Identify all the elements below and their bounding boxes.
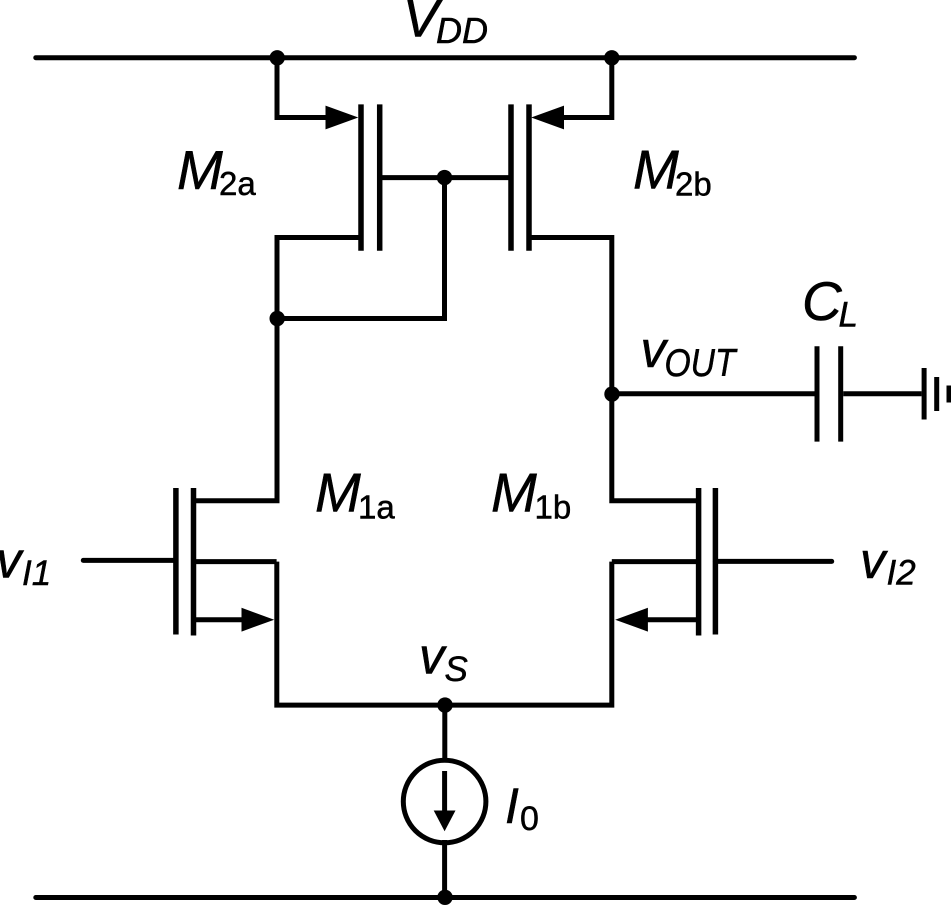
wire vOUT node to capacitor <box>612 391 816 396</box>
arrow M2a source (points into device) <box>326 106 359 130</box>
svg-text:2a: 2a <box>219 165 256 202</box>
node VDD tap M2b <box>604 50 619 65</box>
wire M2a source from VDD <box>277 58 330 118</box>
svg-text:v: v <box>860 532 888 589</box>
wire current source I0 to ground rail <box>442 840 447 898</box>
M2b gate bar <box>508 104 514 250</box>
svg-text:I1: I1 <box>22 554 51 593</box>
svg-text:v: v <box>419 628 447 685</box>
wire M1b source arrow shaft <box>643 617 699 622</box>
capacitor CL <box>817 346 841 441</box>
node VDD tap M2a <box>270 50 285 65</box>
wire M1a source/bulk down to tail node vS <box>277 562 612 706</box>
svg-text:OUT: OUT <box>665 342 738 385</box>
arrow M1a source (points out of device) <box>242 608 275 632</box>
node bottom rail / I0 <box>437 890 452 905</box>
wire capacitor to ground symbol <box>843 391 921 396</box>
svg-text:1a: 1a <box>358 488 395 525</box>
CL left plate <box>815 346 820 441</box>
M1a channel bar <box>191 488 197 636</box>
wire M1a source arrow shaft <box>194 617 247 622</box>
arrow M2b source (points into device) <box>531 106 564 130</box>
wire M2a gate to mirror node <box>382 175 445 180</box>
node vS <box>437 697 452 712</box>
svg-text:M: M <box>177 139 223 201</box>
wire M1a bulk lead <box>194 559 277 564</box>
wire mirror node down and left to M2a drain (diode connection) <box>277 178 445 319</box>
transistor M1b (NMOS, diff pair right) <box>699 488 716 636</box>
wire M2b source from VDD <box>560 58 612 118</box>
wire gate mirror node to M2b gate <box>445 175 509 180</box>
wire VDD rail <box>36 55 855 60</box>
wire M2a drain down to M1a drain <box>194 238 362 501</box>
svg-text:1b: 1b <box>535 488 572 525</box>
arrow M1b source (points out of device) <box>615 608 648 632</box>
svg-text:2b: 2b <box>675 166 712 203</box>
svg-text:M: M <box>315 462 361 524</box>
svg-text:M: M <box>633 139 679 201</box>
M2b channel bar <box>526 104 532 250</box>
transistor M2a (PMOS, diode-connected mirror) <box>361 104 380 250</box>
M2a channel bar <box>358 104 364 250</box>
node vOUT <box>604 386 619 401</box>
svg-text:M: M <box>491 462 537 524</box>
CL right plate <box>838 346 843 441</box>
svg-text:DD: DD <box>436 10 488 51</box>
svg-text:v: v <box>0 532 24 589</box>
M1b channel bar <box>696 488 702 636</box>
ground bar 1 <box>922 368 927 420</box>
wire ground rail (bottom) <box>36 895 855 900</box>
M1b gate bar <box>713 488 719 635</box>
svg-text:C: C <box>802 270 843 332</box>
node M2a drain / diode <box>270 311 285 326</box>
M1a gate bar <box>173 488 179 635</box>
ground bar 2 <box>934 377 939 411</box>
wire M1b gate to vI2 <box>715 559 831 564</box>
node gate mirror <box>437 170 452 185</box>
ground bar 3 <box>947 386 951 403</box>
ground (right of CL, rotated) <box>924 368 949 420</box>
current source I0 circle <box>403 760 486 843</box>
svg-text:0: 0 <box>520 800 539 838</box>
svg-text:L: L <box>839 296 858 335</box>
wire vS node to current source I0 <box>442 705 447 762</box>
current source I0 arrow shaft <box>442 771 447 812</box>
wire M1b bulk lead <box>612 559 699 564</box>
wire M2b drain down to M1b drain <box>529 238 699 501</box>
transistor M2b (PMOS mirror output) <box>511 104 529 250</box>
svg-text:S: S <box>445 650 468 689</box>
svg-text:I: I <box>505 778 519 834</box>
wire vI1 to M1a gate <box>83 558 176 563</box>
M2a gate bar <box>377 104 383 250</box>
svg-text:I2: I2 <box>887 554 916 593</box>
current source I0 arrowhead <box>434 811 456 832</box>
transistor M1a (NMOS, diff pair left) <box>176 488 194 636</box>
